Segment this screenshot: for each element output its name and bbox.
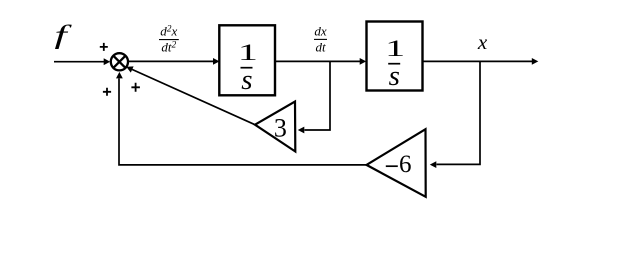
svg-text:s: s bbox=[241, 64, 252, 96]
svg-text:3: 3 bbox=[274, 113, 287, 142]
svg-text:1: 1 bbox=[385, 36, 405, 61]
svg-text:6: 6 bbox=[399, 151, 412, 178]
svg-text:dx: dx bbox=[314, 23, 327, 38]
svg-text:s: s bbox=[389, 60, 400, 92]
svg-text:x: x bbox=[477, 30, 488, 54]
svg-text:dt: dt bbox=[315, 40, 326, 55]
svg-text:1: 1 bbox=[238, 40, 258, 65]
